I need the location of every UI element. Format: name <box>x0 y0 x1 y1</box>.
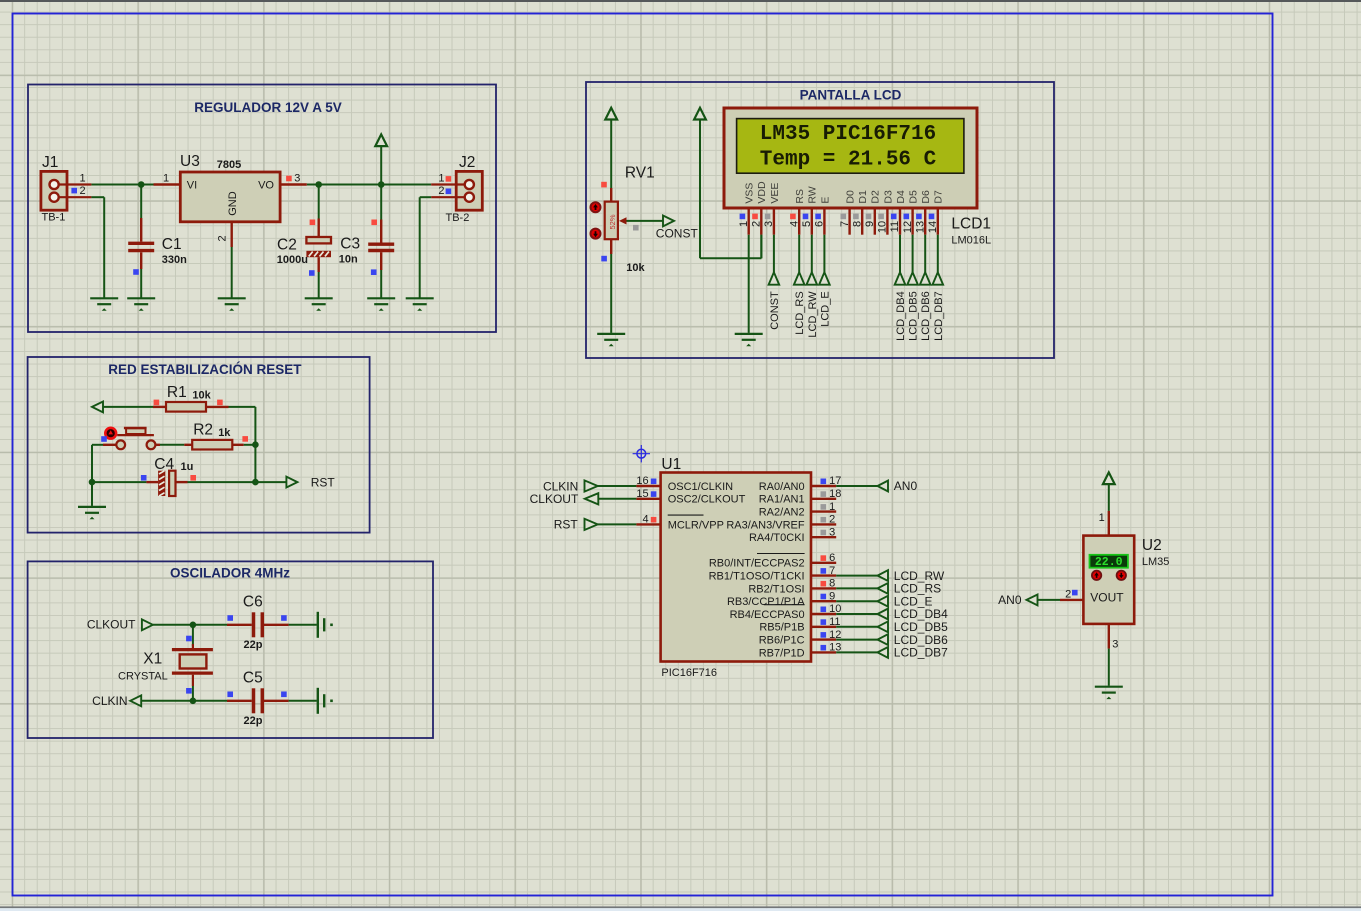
svg-text:18: 18 <box>829 488 841 500</box>
svg-text:VDD: VDD <box>756 181 768 204</box>
ground C6 rotated <box>318 612 324 638</box>
RV1 wiper arrow <box>619 217 627 224</box>
pin indicator square LCD1.12 <box>904 214 910 220</box>
node junction C4 left <box>89 479 96 486</box>
svg-text:2: 2 <box>1065 588 1071 600</box>
svg-text:VO: VO <box>258 179 274 191</box>
svg-text:1000u: 1000u <box>277 254 308 266</box>
svg-text:VEE: VEE <box>769 183 781 204</box>
pin stub U1.3 <box>811 536 836 538</box>
svg-text:RED ESTABILIZACIÓN RESET: RED ESTABILIZACIÓN RESET <box>108 362 302 377</box>
wire VDD pin <box>760 235 762 259</box>
svg-text:1: 1 <box>163 172 169 184</box>
svg-text:CLKIN: CLKIN <box>92 694 127 708</box>
svg-text:7: 7 <box>829 565 835 577</box>
node junction C1 <box>138 181 145 188</box>
svg-text:AN0: AN0 <box>998 593 1022 607</box>
svg-text:8: 8 <box>829 578 835 590</box>
wire C1 to ground <box>140 269 142 298</box>
pin indicator square C1.2 <box>133 269 139 275</box>
pin stub RV1.1 <box>610 188 612 202</box>
svg-text:10: 10 <box>877 221 889 233</box>
pin indicator square RV1.1 <box>601 182 607 188</box>
wire net VIN J1.1 to U3.VI <box>91 184 153 186</box>
node junction RST <box>252 479 259 486</box>
terminal LCD_E <box>819 272 830 284</box>
wire button to C4 vertical <box>91 445 93 506</box>
svg-text:1: 1 <box>738 221 750 227</box>
svg-text:E: E <box>819 197 831 204</box>
power symbol RV1 <box>605 108 617 120</box>
wire LCD pin to LCD_RS terminal <box>798 235 800 273</box>
section box OSCILADOR 4MHz <box>28 561 433 738</box>
wire button left <box>92 444 103 446</box>
power symbol 5V regulator <box>375 134 387 146</box>
svg-text:CONST: CONST <box>769 291 781 330</box>
pin indicator square U1.3 <box>821 530 827 536</box>
capacitor C3 wiring top <box>380 185 382 220</box>
svg-text:RB6/P1C: RB6/P1C <box>759 635 805 647</box>
wire U3.GND to ground <box>231 247 233 298</box>
pin indicator square LCD1.11 <box>891 214 897 220</box>
pin indicator square LCD1.8 <box>853 214 859 220</box>
svg-text:1: 1 <box>829 501 835 513</box>
svg-text:VOUT: VOUT <box>1090 590 1124 604</box>
svg-text:LCD_DB7: LCD_DB7 <box>894 646 948 660</box>
pin indicator square C4.1 <box>141 475 147 481</box>
svg-text:PANTALLA LCD: PANTALLA LCD <box>800 88 902 103</box>
pin indicator square C2.2 <box>309 270 315 276</box>
terminal LCD_RS right <box>878 583 889 594</box>
capacitor C2 wiring top <box>318 185 320 219</box>
pin stub U2.2 <box>1060 599 1083 601</box>
svg-text:TB-1: TB-1 <box>42 212 66 224</box>
pin indicator square LCD1.7 <box>841 214 847 220</box>
svg-text:7805: 7805 <box>217 159 241 171</box>
pin stub C4.2 <box>176 481 188 483</box>
terminal RST <box>286 477 297 488</box>
pin stub LCD1.6 <box>823 208 825 235</box>
svg-text:RB7/P1D: RB7/P1D <box>759 647 805 659</box>
ground C5 rotated <box>318 688 324 714</box>
pushbutton switch <box>116 428 155 449</box>
svg-text:RA4/T0CKI: RA4/T0CKI <box>749 532 805 544</box>
terminal LCD_DB7 right <box>878 647 889 658</box>
ground J1.2 <box>90 298 118 304</box>
pin indicator square U1.18 <box>821 491 827 497</box>
top window edge strip <box>0 0 1361 2</box>
wire LCD pin to LCD_DB7 terminal <box>937 235 939 273</box>
svg-text:GND: GND <box>227 191 239 216</box>
pin indicator square U1.4 <box>651 517 657 523</box>
terminal AN0 right <box>878 481 889 492</box>
wire LCD pin to LCD_RW terminal <box>811 235 813 273</box>
wire U1 to LCD_DB6 terminal <box>836 639 877 641</box>
pin indicator square C6.1 <box>227 615 233 621</box>
LCD display LCD1 LM016L <box>724 108 977 208</box>
wire LCD pin to LCD_DB6 terminal <box>924 235 926 273</box>
svg-text:4: 4 <box>642 514 648 526</box>
svg-text:LCD_E: LCD_E <box>819 291 831 326</box>
svg-text:12: 12 <box>902 221 914 233</box>
pin stub U1.1 <box>811 510 836 512</box>
wire LCD pin to LCD_DB5 terminal <box>912 235 914 273</box>
svg-text:6: 6 <box>814 221 826 227</box>
pin indicator square J2.2 <box>446 189 452 195</box>
wire X1 top <box>192 625 194 646</box>
svg-text:D1: D1 <box>857 190 869 204</box>
svg-text:RB3/CCP1/P1A: RB3/CCP1/P1A <box>727 596 805 608</box>
wire RST to U1.4 <box>598 523 637 525</box>
svg-text:D2: D2 <box>870 190 882 204</box>
svg-text:CLKOUT: CLKOUT <box>87 618 136 632</box>
terminal LCD_DB6 right <box>878 634 889 645</box>
wire U1 to LCD_DB4 terminal <box>836 613 877 615</box>
pin indicator square LCD1.10 <box>878 214 884 220</box>
svg-text:J2: J2 <box>459 154 475 171</box>
pin stub U1.2 <box>811 523 836 525</box>
pin stub LCD1.2 <box>760 208 762 235</box>
svg-text:C3: C3 <box>340 236 360 253</box>
pin indicator square U1.11 <box>821 619 827 625</box>
svg-text:3: 3 <box>763 221 775 227</box>
pin stub C6.1 <box>227 624 252 626</box>
pin stub LCD1.5 <box>811 208 813 235</box>
resistor R1 <box>166 402 206 412</box>
node junction R2 right <box>252 441 259 448</box>
pin indicator square LCD1.1 <box>740 214 746 220</box>
pin stub LCD1.11 <box>899 208 901 235</box>
svg-text:9: 9 <box>829 590 835 602</box>
svg-text:C1: C1 <box>162 236 182 253</box>
wire U1 to LCD_RW terminal <box>836 575 877 577</box>
terminal CLKIN U1 <box>585 480 598 491</box>
terminal RST U1 <box>585 519 598 530</box>
svg-text:D7: D7 <box>933 190 945 204</box>
svg-text:RB2/T1OSI: RB2/T1OSI <box>748 583 804 595</box>
svg-text:RA0/AN0: RA0/AN0 <box>759 481 805 493</box>
pin indicator square U2.2 <box>1072 590 1078 596</box>
pin indicator square button <box>101 436 107 442</box>
pin indicator square LCD1.6 <box>815 214 821 220</box>
svg-text:RB5/P1B: RB5/P1B <box>759 622 804 634</box>
RV1 decrement button <box>591 229 601 239</box>
pin stub U2.3 <box>1108 624 1110 649</box>
pin stub U1.7 <box>811 574 836 576</box>
pin stub LCD1.3 <box>773 208 775 235</box>
pin stub LCD1.8 <box>861 208 863 235</box>
resistor R2 <box>192 440 232 450</box>
pin stub U1.16 <box>636 485 660 487</box>
svg-text:VSS: VSS <box>744 183 756 204</box>
pin stub LCD1.12 <box>911 208 913 235</box>
svg-text:VI: VI <box>187 179 197 191</box>
pin indicator square U1.10 <box>821 607 827 613</box>
ground C2 <box>305 298 333 304</box>
svg-text:LCD_DB6: LCD_DB6 <box>920 291 932 341</box>
svg-text:1: 1 <box>1099 512 1105 524</box>
wire U1 to LCD_DB5 terminal <box>836 626 877 628</box>
svg-text:TB-2: TB-2 <box>446 212 470 224</box>
svg-text:RA2/AN2: RA2/AN2 <box>759 507 805 519</box>
ground VSS <box>735 334 763 340</box>
pin indicator square LCD1.3 <box>765 214 771 220</box>
svg-text:D5: D5 <box>908 190 920 204</box>
pin indicator square LCD1.14 <box>929 214 935 220</box>
terminal LCD_RS <box>794 272 805 284</box>
svg-text:7: 7 <box>839 221 851 227</box>
wire C4 left <box>92 481 146 483</box>
terminal LCD_DB6 <box>920 272 931 284</box>
svg-text:C4: C4 <box>154 456 174 473</box>
svg-text:D6: D6 <box>920 190 932 204</box>
pin stub U1.18 <box>811 498 836 500</box>
pin indicator square U1.12 <box>821 632 827 638</box>
svg-text:RB0/INT/ECCPAS2: RB0/INT/ECCPAS2 <box>709 558 805 570</box>
overline ECCPAS0 <box>764 604 805 606</box>
wire X1 bottom <box>192 686 194 701</box>
pin indicator square C2.1 <box>310 220 316 226</box>
U2 decrement button <box>1117 571 1126 580</box>
connector J2 <box>431 171 482 210</box>
wire RV1 to ground <box>610 254 612 333</box>
capacitor C4 polarized plates <box>158 471 175 496</box>
svg-text:LCD_DB5: LCD_DB5 <box>908 291 920 341</box>
wire J2.2 to ground <box>420 196 432 198</box>
svg-text:10n: 10n <box>339 254 358 266</box>
wire power to 5V rail <box>380 146 382 184</box>
wire RV1 wiper to CONST <box>627 220 663 222</box>
node junction X1 top <box>190 622 197 629</box>
svg-text:CLKOUT: CLKOUT <box>530 492 579 506</box>
svg-text:22p: 22p <box>244 639 263 651</box>
pin indicator square R1.2 <box>217 400 223 406</box>
svg-text:LM016L: LM016L <box>951 235 991 247</box>
capacitor C5 plates <box>254 688 263 713</box>
node junction C2 <box>315 181 322 188</box>
wire J1.2 to ground <box>91 196 104 198</box>
ground U3 <box>218 298 246 304</box>
ground reset <box>78 507 106 513</box>
svg-text:OSC2/CLKOUT: OSC2/CLKOUT <box>668 494 746 506</box>
pin stub U1.15 <box>636 498 660 500</box>
terminal LCD_DB4 <box>895 272 906 284</box>
svg-text:8: 8 <box>851 221 863 227</box>
wire R1 left <box>103 406 153 408</box>
svg-text:RV1: RV1 <box>625 164 655 181</box>
section box RED ESTABILIZACION RESET <box>28 357 370 533</box>
svg-text:LCD_DB4: LCD_DB4 <box>895 291 907 341</box>
pin indicator square LCD1.9 <box>866 214 872 220</box>
pin indicator square U1.15 <box>651 491 657 497</box>
terminal LCD_RW <box>807 272 818 284</box>
svg-text:RB4/ECCPAS0: RB4/ECCPAS0 <box>730 609 805 621</box>
svg-text:D3: D3 <box>882 190 894 204</box>
wire C5 to ground <box>289 700 317 702</box>
pin indicator square C4.2 <box>190 475 196 481</box>
pin indicator square U1.13 <box>821 645 827 651</box>
svg-text:14: 14 <box>927 221 939 233</box>
svg-text:LCD1: LCD1 <box>951 216 991 233</box>
wire button right to R2 <box>155 444 160 446</box>
svg-text:D4: D4 <box>895 190 907 204</box>
svg-text:2: 2 <box>829 514 835 526</box>
terminal CONST under LCD <box>769 272 780 284</box>
RV1 increment button <box>591 202 601 212</box>
node junction C3/power <box>378 181 385 188</box>
terminal CLKIN <box>130 695 141 706</box>
capacitor C6 plates <box>254 612 263 637</box>
svg-text:RST: RST <box>554 518 579 532</box>
svg-text:13: 13 <box>914 221 926 233</box>
svg-text:2: 2 <box>80 185 86 197</box>
svg-text:MCLR/VPP: MCLR/VPP <box>668 519 724 531</box>
svg-text:C6: C6 <box>243 593 263 610</box>
svg-text:RS: RS <box>794 189 806 204</box>
pin indicator square U1.7 <box>821 568 827 574</box>
terminal LCD_DB5 <box>907 272 918 284</box>
pin stub LCD1.4 <box>798 208 800 235</box>
svg-text:11: 11 <box>889 221 901 232</box>
ground J2.2 <box>406 298 434 304</box>
svg-text:22.0: 22.0 <box>1095 556 1123 569</box>
wire U2.3 to ground <box>1108 649 1110 686</box>
pin indicator square X1.2 <box>186 688 192 694</box>
wire VDD power rail <box>699 120 701 259</box>
svg-text:22p: 22p <box>244 715 263 727</box>
svg-text:LM35 PIC16F716: LM35 PIC16F716 <box>760 123 936 146</box>
pin stub U1.9 <box>811 600 836 602</box>
pin stub C5.1 <box>227 700 252 702</box>
pin indicator square U1.17 <box>821 479 827 485</box>
wire net 5V U3.VO to J2.1 <box>307 184 431 186</box>
pin indicator square J2.1 <box>446 176 452 182</box>
terminal LCD_DB4 right <box>878 609 889 620</box>
svg-text:CONST: CONST <box>656 226 699 240</box>
section box REGULADOR 12V A 5V <box>28 85 496 333</box>
svg-text:REGULADOR 12V A 5V: REGULADOR 12V A 5V <box>194 100 342 115</box>
wire U1 to AN0 terminal <box>836 485 877 487</box>
pin indicator square U1.9 <box>821 594 827 600</box>
pin stub U1.17 <box>811 485 836 487</box>
svg-text:RB1/T1OSO/T1CKI: RB1/T1OSO/T1CKI <box>709 571 805 583</box>
ground U2 <box>1095 687 1123 693</box>
wire C4 to RST terminal <box>188 481 287 483</box>
svg-text:330n: 330n <box>162 254 187 266</box>
terminal LCD_E right <box>878 596 889 607</box>
wire power to RV1 <box>610 120 612 189</box>
svg-text:OSC1/CLKIN: OSC1/CLKIN <box>668 481 733 493</box>
wire R2 right <box>244 444 256 446</box>
svg-text:LM35: LM35 <box>1142 556 1170 568</box>
svg-text:LCD_RS: LCD_RS <box>794 291 806 334</box>
wire LCD pin to LCD_E terminal <box>823 235 825 273</box>
svg-text:4: 4 <box>788 221 800 227</box>
pin indicator square LCD1.5 <box>803 214 809 220</box>
svg-text:9: 9 <box>864 221 876 227</box>
terminal CLKOUT <box>142 619 153 630</box>
svg-text:16: 16 <box>636 475 648 487</box>
pin indicator square U3.3 <box>286 176 292 182</box>
svg-text:52%: 52% <box>608 214 617 229</box>
svg-text:3: 3 <box>1112 638 1118 650</box>
pin indicator square C5.2 <box>281 692 287 698</box>
bottom window edge strips <box>0 906 1361 908</box>
svg-text:RA3/AN3/VREF: RA3/AN3/VREF <box>726 519 805 531</box>
svg-text:C5: C5 <box>243 669 263 686</box>
wire U1 to LCD_E terminal <box>836 600 877 602</box>
svg-text:5: 5 <box>801 221 813 227</box>
pin stub RV1.2 <box>610 239 612 254</box>
svg-text:1k: 1k <box>218 427 231 439</box>
terminal AN0 U2 <box>1027 595 1038 606</box>
wire C2 to ground <box>318 272 320 298</box>
capacitor C2 polarized plates <box>306 237 331 243</box>
svg-text:R1: R1 <box>167 384 187 401</box>
pin indicator square C6.2 <box>281 615 287 621</box>
pin stub U1.8 <box>811 587 836 589</box>
svg-text:R2: R2 <box>193 421 213 438</box>
pin indicator square X1.1 <box>186 636 192 642</box>
pin stub C6.2 <box>264 624 289 626</box>
section box PANTALLA LCD <box>586 82 1054 358</box>
pin indicator square U1.6 <box>821 555 827 561</box>
terminal CLKOUT U1 <box>585 493 599 504</box>
potentiometer RV1 <box>605 202 618 240</box>
svg-text:U3: U3 <box>180 153 200 170</box>
pin indicator square RV1.wiper <box>633 225 639 231</box>
svg-text:U2: U2 <box>1142 537 1162 554</box>
connector J1 <box>41 171 92 210</box>
svg-text:J1: J1 <box>42 154 58 171</box>
pin stub LCD1.14 <box>937 208 939 235</box>
svg-text:RST: RST <box>311 475 336 489</box>
svg-text:D0: D0 <box>845 190 857 204</box>
ground RV1 <box>597 334 625 340</box>
svg-text:1: 1 <box>80 172 86 184</box>
wire CLKOUT to C6 <box>153 624 227 626</box>
pin stub U1.12 <box>811 638 836 640</box>
pin indicator square U1.16 <box>651 479 657 485</box>
pin stub R2.2 <box>232 444 243 446</box>
capacitor C1 <box>140 185 142 219</box>
pin stub LCD1.9 <box>874 208 876 235</box>
wire LCD pin to LCD_DB4 terminal <box>899 235 901 273</box>
power symbol U2 <box>1103 472 1115 484</box>
ground C3 <box>367 298 395 304</box>
terminal LCD_DB5 right <box>878 621 889 632</box>
svg-text:6: 6 <box>829 552 835 564</box>
pin stub U1.10 <box>811 613 836 615</box>
temperature sensor U2 LM35 body <box>1083 536 1134 624</box>
svg-text:AN0: AN0 <box>894 479 918 493</box>
svg-text:10k: 10k <box>626 262 645 274</box>
U2 increment button <box>1092 571 1101 580</box>
terminal left R1 <box>92 402 103 413</box>
pin stub LCD1.1 <box>748 208 750 235</box>
wire C3 to ground <box>380 270 382 298</box>
svg-text:OSCILADOR 4MHz: OSCILADOR 4MHz <box>170 566 290 581</box>
wire power to U2.1 <box>1108 484 1110 511</box>
wire C6 to ground <box>289 624 317 626</box>
svg-text:1: 1 <box>438 172 444 184</box>
svg-text:3: 3 <box>829 526 835 538</box>
ground C1 <box>127 298 155 304</box>
svg-text:LCD_DB7: LCD_DB7 <box>933 291 945 341</box>
pin indicator square LCD1.2 <box>752 214 758 220</box>
pin stub LCD1.10 <box>886 208 888 235</box>
U2 temperature display <box>1090 555 1128 568</box>
